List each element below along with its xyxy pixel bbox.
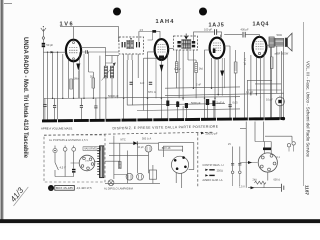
battery plug circle [171,156,188,173]
resistor R6 [175,62,178,73]
svg-text:VOL. III - Fasc. Unico - Schem: VOL. III - Fasc. Unico - Schemi del Radi… [306,61,311,158]
wire: AVC drops [177,49,197,99]
aerial terminals [287,144,290,147]
svg-text:1187: 1187 [304,185,309,195]
stamp box [55,185,75,190]
wire: V3 plate riser [220,35,222,39]
svg-text:5000 pF: 5000 pF [191,101,201,105]
capacitor C6 [53,106,56,108]
phone jack J1 [276,97,285,106]
svg-text:2 nF: 2 nF [196,84,201,87]
svg-text:AL PORTAPILE ESTERNO 4,5 V: AL PORTAPILE ESTERNO 4,5 V [49,139,88,142]
resistor R8 [270,57,273,69]
loudspeaker [285,33,292,51]
capacitor C8 [94,106,97,108]
svg-text:400 pF: 400 pF [241,28,249,32]
svg-text:APRE A VOLUME MASS.: APRE A VOLUME MASS. [41,126,73,130]
svg-text:C.A.V.: C.A.V. [174,68,181,71]
drops continuing to ground bus [55,97,261,120]
wire: long mid horizontal y58 [106,56,157,59]
wire: IF1 secondary to V2 grid cap [139,32,152,42]
svg-text:1nF: 1nF [140,82,145,85]
capacitor 400pF [241,28,260,38]
plug arrow into socket [240,162,258,164]
wire: V2 grid left [148,52,155,98]
horizontal rail y88 [165,87,240,88]
electrolytic C21 [126,173,133,180]
wire: IF2 bottom legs [179,50,193,98]
stamp circle A [48,185,54,191]
right area rails [247,80,281,90]
resistor R2 [90,76,95,88]
wire: V4 plate to output transformer [266,44,269,46]
svg-text:VALV.RIVEL: VALV.RIVEL [84,148,98,151]
resistor R10 [119,162,122,169]
bottom black bar [0,219,320,223]
svg-text:BOX-18: BOX-18 [162,147,171,150]
horizontal rail y110.5 [137,109,240,111]
svg-text:10 μF: 10 μF [266,98,273,102]
svg-text:50 pF: 50 pF [46,43,53,47]
oscillator coil L1 [104,66,107,78]
dashed boundary of rear view [44,132,213,135]
horizontal rail y105 [127,104,225,106]
svg-text:10 μF: 10 μF [137,146,144,149]
svg-text:600 Ω: 600 Ω [274,178,281,181]
svg-text:10000 pF: 10000 pF [205,131,217,135]
grid cap V2 (black block) [152,30,156,33]
vertical drops right of V3 [212,58,219,98]
tube V4 1AQ4 envelope [253,37,267,57]
svg-text:-0,1 42V 17,5: -0,1 42V 17,5 [76,186,92,190]
svg-text:100 pF: 100 pF [204,27,212,31]
svg-text:BOX 4S-185: BOX 4S-185 [56,186,73,190]
terminal a [53,149,57,153]
measuring leads [233,147,240,172]
svg-text:AVERO ALIM. LA: AVERO ALIM. LA [202,178,222,182]
oscillator coil L2 [102,62,116,80]
output transformer [269,33,289,56]
capacitor 100pF [204,27,222,37]
wire: IF2 secondary to 100pF [194,32,214,41]
terminal c [72,147,76,151]
vertical drops left section [42,52,44,119]
antenna [41,26,46,43]
resistor R12 [267,172,269,180]
electrolytic C20 [145,145,152,152]
wire: top plate line V1 to IF1 [60,27,119,42]
resistor R1 [70,78,79,89]
svg-text:4,5: 4,5 [140,29,144,32]
svg-text:50000 pF: 50000 pF [108,95,119,98]
output socket (miniature) [258,153,277,172]
svg-text:NTC Ω: NTC Ω [148,91,156,94]
wire: jack to bus [279,105,281,119]
wire: V1 top riser [73,27,75,40]
wire: antenna row [43,51,66,53]
page left edge [0,0,1,222]
electrolytic cluster [166,101,169,107]
IF transformer T1 (dashed can) [119,37,144,54]
battery plug dashed box [44,135,105,182]
capacitor C5 [43,105,46,107]
wire: V1 cathode drop + arrow [73,61,75,98]
wire: output stage drops [247,46,281,119]
svg-text:A: A [50,186,53,191]
electrolytic C22 [137,173,144,180]
svg-text:NTC: NTC [121,139,126,142]
wire: V2 plate to IF2 [168,48,173,50]
svg-text:1kΩ: 1kΩ [199,67,204,70]
ground bus (heavy) [42,119,284,121]
IF transformer T2 (dashed can) [174,34,198,51]
svg-text:5 μF A: 5 μF A [217,101,225,105]
svg-text:0,1 μF: 0,1 μF [243,58,246,66]
horizontal long rail y98.3 [44,97,240,99]
svg-text:500 Ω A: 500 Ω A [142,138,151,141]
svg-text:2kΩ: 2kΩ [253,178,258,181]
chassis pin strip [100,146,104,178]
resistor R5 [195,63,204,73]
wire: V3 plate to 400pF [224,34,242,36]
right page rule [302,22,305,186]
terminal b [63,147,67,151]
legend arrow 2 [205,174,208,176]
battery socket box [159,143,194,170]
socket plug G1 [79,155,95,171]
punch hole right [199,8,207,16]
wire: V3 left [205,50,210,98]
junction dots on rails [52,88,257,100]
resistor R7 [234,62,237,73]
capacitor C7 [80,106,83,108]
top-left tick [4,2,12,5]
antenna coupling capacitor (black block) [42,43,54,52]
wire: V1 plate right [81,48,106,66]
svg-text:1,5 V: 1,5 V [239,185,245,188]
svg-text:250Ω: 250Ω [217,168,223,172]
handwritten shelf mark 41/3 [7,182,29,206]
svg-text:1MΩ: 1MΩ [74,78,79,81]
tube V2 1AH4 envelope [155,39,169,60]
switch S1 [55,146,100,177]
wire: IF1 bottom legs [124,54,139,98]
horizontal rail y95.6 [165,93,284,95]
wire: V3 cathode arrow [220,71,224,78]
battery cell B1 [149,170,156,179]
svg-text:0,1 μF: 0,1 μF [246,91,254,94]
capacitor C13 [229,105,232,107]
svg-text:1AQ4: 1AQ4 [253,22,269,28]
capacitor C10 [149,82,152,84]
svg-text:0,05: 0,05 [233,101,239,105]
capacitor on V1 output [81,50,119,53]
wires under bus right [246,122,271,188]
vertical drops V4 area [244,47,270,119]
wire: V2 cathode drop + arrow [160,60,162,98]
battery feed line [248,187,281,189]
svg-text:50Ω: 50Ω [277,33,282,37]
capacitor C9 [130,82,133,84]
tube V1 1V6 envelope [66,40,81,62]
vertical drops centre [127,60,132,105]
callout 10000 pF [201,132,204,135]
tube V3 1AJ5 envelope [210,38,225,59]
supply wire [109,142,159,144]
dial lamp [108,180,114,186]
mid column wires [114,136,153,184]
svg-text:CONTRº REVL. LI: CONTRº REVL. LI [202,163,224,167]
svg-text:AL DIPOLO LAMPADINA: AL DIPOLO LAMPADINA [104,187,133,191]
diode D1 [133,141,137,145]
legend arrow 1 [205,169,208,171]
punch hole left [113,8,121,16]
svg-text:UNDA RADIO - Mod. Tri Unda 41/: UNDA RADIO - Mod. Tri Unda 41/3 Tascabil… [22,37,29,159]
svg-text:2V: 2V [228,143,231,146]
cell symbol [282,184,284,192]
svg-text:1AH4: 1AH4 [156,19,175,25]
